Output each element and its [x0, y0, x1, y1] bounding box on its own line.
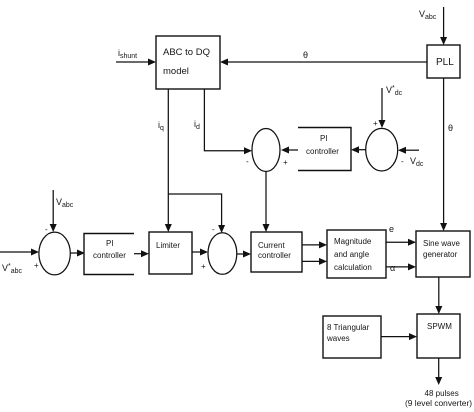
block Limiter	[149, 232, 192, 274]
label alpha	[390, 263, 395, 273]
label V_abc top	[419, 9, 437, 21]
block Sine wave generator	[416, 231, 470, 277]
summing node B	[208, 233, 237, 275]
label i_d	[194, 119, 200, 131]
block PI controller left	[84, 234, 134, 275]
svg-text:48 pulses: 48 pulses	[425, 389, 459, 398]
label 48 pulses	[425, 389, 459, 398]
svg-text:controller: controller	[93, 251, 126, 260]
wire magnitude to sine alpha	[386, 263, 416, 270]
node B minus sign	[212, 225, 215, 234]
block 8 Triangular waves	[323, 316, 381, 358]
wire node B to current controller	[237, 251, 251, 258]
wire theta PLL to ABC-DQ	[220, 59, 427, 66]
svg-text:-: -	[212, 225, 215, 234]
svg-text:-: -	[401, 157, 404, 166]
node A minus sign	[45, 225, 48, 234]
wire triangular to SPWM	[381, 333, 417, 340]
summing node C	[252, 129, 280, 172]
svg-text:Magnitude: Magnitude	[334, 237, 372, 246]
wire node C down to current controller	[263, 172, 270, 233]
svg-text:PI: PI	[320, 134, 328, 143]
summing node A	[39, 232, 70, 275]
wire i_shunt input	[116, 59, 156, 66]
node D plus sign	[373, 119, 378, 128]
wire PI dc to node C	[281, 147, 298, 154]
wire i_q branch to summing node B	[168, 194, 225, 233]
wire current controller to magnitude bottom	[302, 258, 327, 265]
summing node D	[366, 128, 398, 171]
node A plus sign	[34, 261, 39, 270]
wire sine to SPWM	[435, 277, 442, 314]
svg-text:PI: PI	[106, 239, 114, 248]
block PI controller dc loop	[298, 128, 351, 171]
svg-text:calculation: calculation	[334, 263, 372, 272]
svg-text:+: +	[283, 158, 288, 167]
label i_shunt	[118, 48, 137, 60]
svg-text:(9 level converter): (9 level converter)	[405, 398, 472, 408]
wire PI to limiter	[134, 250, 149, 257]
block Current controller	[251, 232, 302, 272]
svg-text:and angle: and angle	[334, 250, 370, 259]
wire V*abc into node A	[0, 249, 39, 256]
svg-text:SPWM: SPWM	[427, 322, 452, 331]
wire node D to PI controller dc	[351, 146, 366, 153]
svg-text:θ: θ	[303, 50, 308, 60]
wire i_q from ABC-DQ down to limiter	[165, 89, 172, 232]
node C minus sign	[246, 157, 249, 166]
node C plus sign	[283, 158, 288, 167]
label -Vdc	[401, 156, 424, 168]
wire theta PLL down to sine wave generator	[440, 78, 447, 231]
svg-text:α: α	[390, 263, 395, 273]
svg-text:controller: controller	[258, 251, 291, 260]
wire limiter to node B	[192, 249, 208, 256]
svg-text:+: +	[201, 262, 206, 271]
block PLL	[427, 45, 460, 78]
svg-text:model: model	[163, 66, 189, 77]
svg-text:θ: θ	[448, 123, 453, 133]
svg-text:Limiter: Limiter	[156, 241, 180, 250]
label V*abc	[2, 263, 23, 275]
svg-text:PLL: PLL	[436, 57, 454, 68]
block Magnitude and angle calculation	[327, 230, 386, 278]
wire V*dc into node D	[379, 88, 386, 128]
wire i_d from ABC-DQ to node C	[204, 89, 252, 154]
svg-text:Current: Current	[258, 241, 285, 250]
svg-text:controller: controller	[306, 147, 339, 156]
svg-text:-: -	[45, 225, 48, 234]
svg-text:Sine wave: Sine wave	[423, 239, 460, 248]
wire V_abc into PLL	[440, 7, 447, 45]
block SPWM	[417, 314, 460, 358]
svg-text:8 Triangular: 8 Triangular	[327, 323, 370, 332]
svg-text:+: +	[34, 261, 39, 270]
wire node A to PI controller	[70, 250, 85, 257]
node B plus sign	[201, 262, 206, 271]
label e	[389, 224, 394, 234]
label V*dc	[386, 85, 403, 97]
svg-text:ABC to DQ: ABC to DQ	[163, 47, 210, 58]
wire V_abc into node A	[50, 190, 57, 232]
wire magnitude to sine e	[386, 239, 416, 246]
wire Vdc into node D	[398, 147, 419, 154]
label theta on vertical wire	[448, 123, 453, 133]
label V_abc left	[56, 197, 74, 209]
label 9 level converter	[405, 398, 472, 408]
wire SPWM output	[435, 358, 442, 385]
svg-text:e: e	[389, 224, 394, 234]
svg-text:generator: generator	[423, 250, 458, 259]
wire current controller to magnitude top	[302, 241, 327, 248]
label i_q	[158, 120, 164, 132]
svg-text:-: -	[246, 157, 249, 166]
svg-text:+: +	[373, 119, 378, 128]
label theta on horizontal wire	[303, 50, 308, 60]
svg-text:waves: waves	[326, 334, 350, 343]
block ABC to DQ model	[156, 36, 220, 89]
